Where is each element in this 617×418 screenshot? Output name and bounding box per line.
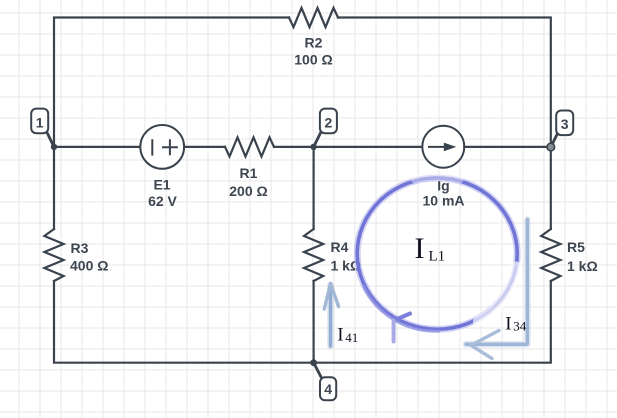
wire node 2 down to R4 xyxy=(313,147,315,229)
wire R4 to node 4 xyxy=(313,281,315,363)
svg-text:34: 34 xyxy=(513,319,527,334)
svg-text:2: 2 xyxy=(325,114,333,130)
wire top-left to R2 xyxy=(54,18,289,148)
current source Ig xyxy=(422,126,464,168)
voltage source E1 xyxy=(140,125,184,169)
svg-text:100 Ω: 100 Ω xyxy=(294,52,332,68)
node 2 xyxy=(310,109,337,150)
current arrow I34 xyxy=(466,220,527,359)
svg-text:41: 41 xyxy=(345,330,358,345)
label R4 value xyxy=(331,239,362,274)
label I_L1 xyxy=(415,232,446,265)
wire R3 to bottom-left corner to node 4 xyxy=(54,281,314,363)
svg-text:200 Ω: 200 Ω xyxy=(229,183,267,199)
wire E1 to R1 xyxy=(184,146,225,148)
wire node 1 to E1 xyxy=(54,146,140,148)
resistor R5 xyxy=(541,229,560,281)
svg-text:1: 1 xyxy=(36,114,44,130)
svg-text:R2: R2 xyxy=(305,35,323,51)
wire R5 to bottom-right corner xyxy=(314,281,551,363)
svg-text:R4: R4 xyxy=(331,239,349,255)
wire R2 to top-right corner down to node 3 xyxy=(338,18,551,148)
label R5 value xyxy=(567,239,598,274)
label R3 value xyxy=(70,240,108,274)
label R2 value xyxy=(294,35,332,68)
svg-text:R1: R1 xyxy=(240,165,258,181)
wire node 2 to Ig xyxy=(314,146,423,148)
svg-text:I: I xyxy=(415,232,425,265)
wire Ig to node 3 xyxy=(464,146,551,148)
svg-text:I: I xyxy=(337,324,343,345)
current arrow I41 xyxy=(324,284,338,347)
label R1 value xyxy=(229,165,267,199)
svg-text:E1: E1 xyxy=(153,177,170,193)
wire node 3 down to R5 xyxy=(550,147,552,229)
label I41 xyxy=(337,324,358,345)
resistor R1 xyxy=(225,137,274,156)
svg-text:3: 3 xyxy=(561,116,569,132)
wire R1 to node 2 xyxy=(274,146,314,148)
svg-text:10 mA: 10 mA xyxy=(422,193,464,209)
svg-text:L1: L1 xyxy=(429,249,446,265)
svg-text:62 V: 62 V xyxy=(148,193,177,209)
svg-text:4: 4 xyxy=(324,381,332,397)
resistor R4 xyxy=(304,229,323,281)
label Ig value xyxy=(422,178,464,209)
loop L1 direction arrowhead xyxy=(394,314,410,342)
label I34 xyxy=(505,313,527,334)
resistor R2 xyxy=(289,8,338,27)
svg-text:R3: R3 xyxy=(71,240,89,256)
node 4 xyxy=(310,359,336,400)
loop L1 hand-drawn circle xyxy=(357,177,517,331)
label E1 value xyxy=(148,177,177,210)
svg-text:400 Ω: 400 Ω xyxy=(70,258,108,274)
resistor R3 xyxy=(44,229,63,281)
svg-text:R5: R5 xyxy=(567,239,585,255)
node 1 xyxy=(31,109,57,150)
svg-text:I: I xyxy=(505,313,511,334)
wire node 1 down to R3 xyxy=(53,147,55,229)
node 3 xyxy=(547,111,573,151)
svg-text:1 kΩ: 1 kΩ xyxy=(567,258,598,274)
